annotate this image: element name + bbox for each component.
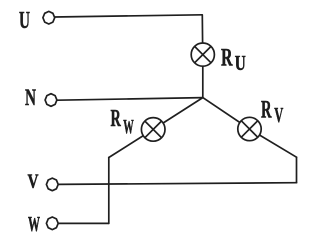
svg-text:N: N — [25, 85, 36, 110]
wire right vertical down to V line — [296, 157, 298, 183]
lamp RW — [141, 118, 165, 142]
wire top vertical into lamp RU — [201, 15, 203, 43]
label RU — [221, 45, 246, 76]
wire lamp RW to lower-left corner diagonal — [109, 129, 153, 157]
wire V horizontal — [58, 183, 296, 185]
wire lamp RV to right corner diagonal — [250, 129, 297, 157]
wire left vertical down to W line — [108, 158, 110, 224]
terminal N — [45, 94, 57, 107]
label RV — [261, 96, 283, 127]
label RW — [111, 106, 134, 138]
svg-text:R: R — [111, 106, 122, 132]
wire lamp RU to node — [202, 66, 204, 98]
svg-text:W: W — [123, 116, 134, 138]
wire node to lamp RW diagonal — [153, 98, 203, 130]
terminal U — [43, 11, 55, 24]
svg-text:U: U — [235, 51, 246, 75]
svg-text:R: R — [221, 45, 233, 72]
wire U-phase top horizontal — [55, 15, 203, 17]
lamp RV — [238, 117, 261, 140]
svg-text:W: W — [28, 212, 40, 236]
lamp RU — [191, 43, 214, 66]
terminal V — [46, 178, 58, 191]
terminal W — [46, 217, 58, 230]
wire N horizontal to node — [58, 98, 203, 101]
wire W horizontal — [58, 222, 109, 224]
svg-text:R: R — [261, 96, 272, 123]
svg-text:U: U — [19, 8, 30, 34]
svg-text:V: V — [274, 103, 283, 127]
svg-text:V: V — [28, 171, 39, 193]
wire node to lamp RV diagonal — [203, 98, 250, 129]
